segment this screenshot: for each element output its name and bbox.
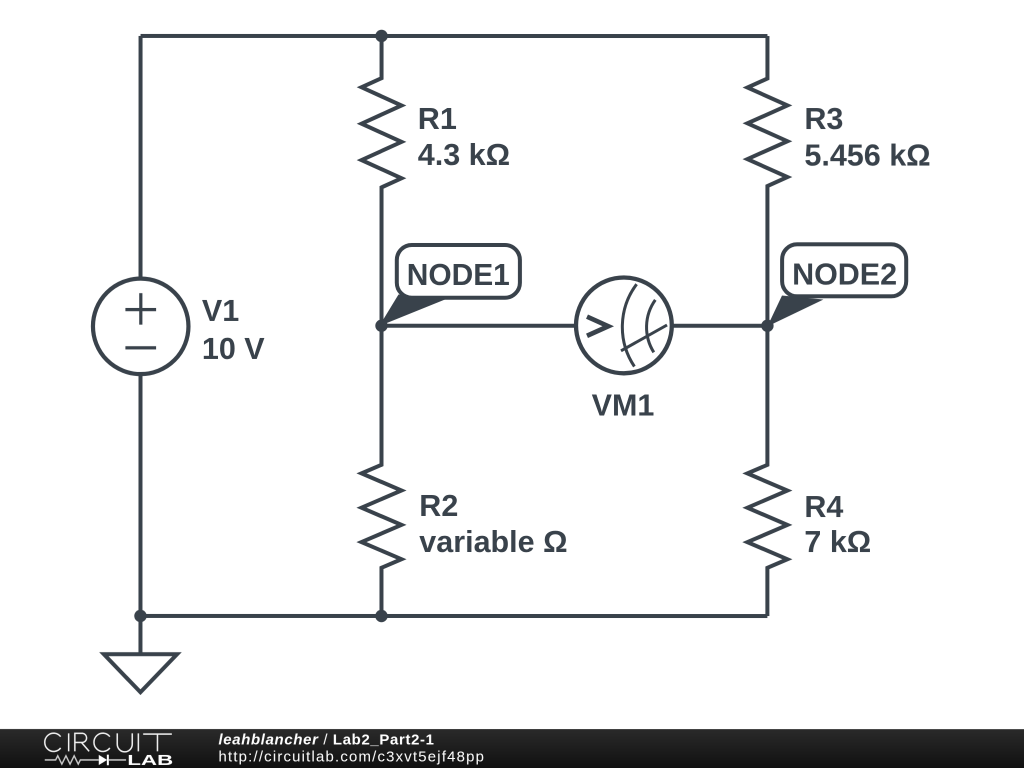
svg-text:NODE1: NODE1	[407, 257, 510, 292]
svg-text:variable Ω: variable Ω	[419, 525, 567, 559]
svg-text:LAB: LAB	[127, 753, 173, 768]
svg-text:http://circuitlab.com/c3xvt5ej: http://circuitlab.com/c3xvt5ejf48pp	[218, 748, 484, 765]
svg-text:R3: R3	[804, 102, 843, 136]
svg-text:R1: R1	[418, 102, 457, 136]
svg-text:5.456 kΩ: 5.456 kΩ	[804, 139, 930, 173]
svg-text:10 V: 10 V	[202, 332, 265, 366]
svg-text:4.3 kΩ: 4.3 kΩ	[418, 138, 510, 172]
svg-text:V1: V1	[202, 294, 239, 328]
svg-text:NODE2: NODE2	[792, 256, 897, 291]
svg-text:VM1: VM1	[592, 389, 655, 423]
svg-text:leahblancher / Lab2_Part2-1: leahblancher / Lab2_Part2-1	[218, 731, 434, 748]
svg-text:7 kΩ: 7 kΩ	[804, 525, 871, 559]
svg-text:R2: R2	[419, 489, 458, 523]
svg-text:R4: R4	[804, 490, 843, 524]
